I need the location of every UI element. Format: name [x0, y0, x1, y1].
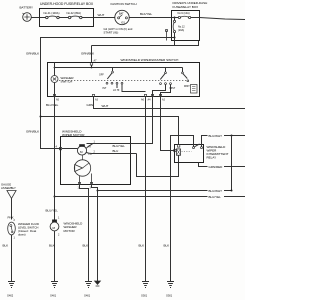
svg-text:BLU/WHT: BLU/WHT [209, 134, 223, 138]
BLU/WHT label right [209, 189, 223, 193]
svg-text:G402: G402 [7, 295, 14, 298]
BLU/YEL label right [209, 195, 222, 199]
GRN/RED label [209, 165, 224, 169]
svg-text:(20A): (20A) [178, 29, 184, 32]
svg-text:BLU/YEL: BLU/YEL [209, 195, 222, 199]
svg-text:GRN: GRN [87, 103, 94, 107]
BLK label level switch [3, 243, 9, 247]
node: junction at fuse 9 input [174, 17, 176, 19]
svg-text:2: 2 [58, 234, 60, 237]
ground G401 (wiper motor pair left) [85, 282, 92, 288]
wiper switch pole 3 (MIST) [182, 68, 189, 82]
svg-text:WIPER MOTOR: WIPER MOTOR [62, 133, 85, 137]
svg-text:MOTOR: MOTOR [64, 229, 76, 233]
ground G401 (washer motor) [51, 282, 58, 288]
svg-text:PNK: PNK [8, 215, 14, 219]
wire A6 to ground (BLK) [145, 97, 147, 282]
ground G402 (level switch) [8, 282, 15, 288]
IG1 label [121, 22, 126, 25]
svg-text:G401: G401 [50, 295, 57, 298]
svg-text:M: M [80, 150, 83, 154]
svg-text:BLU/WHT: BLU/WHT [209, 189, 223, 193]
BLU/YEL label mid [113, 144, 126, 148]
wire WHT to ignition switch [94, 17, 115, 19]
BLU/WHT wire to right bus [98, 190, 232, 192]
svg-text:GRN/BLK: GRN/BLK [81, 51, 94, 55]
wire GRN/BLK branch left (upper) [41, 38, 175, 149]
windshield wiper/washer switch box [48, 63, 200, 97]
washer fluid level switch label [18, 222, 39, 226]
under-hood box title [40, 2, 94, 6]
under-hood fuse/relay box [40, 9, 94, 27]
svg-text:G501: G501 [166, 295, 173, 298]
terminal squares on switch box bottom [53, 94, 161, 96]
svg-text:DRIVER'S UNDER-DASH: DRIVER'S UNDER-DASH [173, 1, 208, 5]
svg-text:WINDSHIELD WIPER/WASHER SWITCH: WINDSHIELD WIPER/WASHER SWITCH [121, 58, 179, 62]
fuse No.41 label [44, 11, 60, 15]
bottom terminal labels [56, 99, 60, 102]
svg-text:LO HI: LO HI [113, 89, 120, 92]
fuse No.12 (20A) vertical [173, 18, 175, 38]
washer switch [51, 63, 58, 97]
svg-text:GRN/BLK: GRN/BLK [26, 129, 39, 133]
INT label [103, 87, 107, 90]
cam park switch [74, 155, 90, 176]
svg-text:2: 2 [14, 219, 16, 222]
fuse No.12 label [178, 25, 185, 28]
svg-text:No.42 (80A): No.42 (80A) [67, 11, 82, 15]
cam ground wire left [80, 185, 89, 282]
inner feed wire [55, 65, 183, 67]
svg-text:BLK: BLK [3, 243, 9, 247]
cam contacts [80, 174, 92, 185]
battery label [20, 6, 34, 10]
BLK label A6 ground [139, 243, 145, 247]
wire between fuses [59, 17, 68, 19]
svg-text:A2: A2 [162, 99, 166, 102]
svg-text:MIST: MIST [184, 85, 190, 88]
GRN/BLK label upper [26, 51, 39, 55]
fuse No.9 (10A) [172, 16, 200, 18]
washer motor terminal labels [58, 216, 60, 219]
svg-text:A5: A5 [56, 99, 60, 102]
OFF label [99, 74, 104, 77]
gauge assembly label [1, 183, 11, 187]
svg-text:UNDER-HOOD FUSE/RELAY BOX: UNDER-HOOD FUSE/RELAY BOX [40, 2, 94, 6]
svg-text:INT: INT [103, 87, 107, 90]
svg-text:RELAY: RELAY [207, 155, 217, 159]
svg-text:GRN/RED: GRN/RED [209, 165, 224, 169]
svg-text:BLK: BLK [83, 243, 89, 247]
level switch terminal labels [14, 219, 16, 222]
svg-text:BATTERY: BATTERY [20, 6, 34, 10]
gauge continuation triangle [7, 191, 16, 199]
GRN/BLK label lower [26, 129, 39, 133]
svg-text:MIST: MIST [170, 87, 176, 90]
svg-text:BLU/YEL: BLU/YEL [46, 208, 59, 212]
svg-text:No.9 (10A): No.9 (10A) [178, 12, 190, 15]
washer motor [50, 197, 59, 282]
windshield wiper intermittent relay box [175, 145, 204, 163]
cam ground wire right [92, 185, 98, 282]
BLK label relay ground [164, 243, 170, 247]
svg-text:G401: G401 [84, 295, 91, 298]
svg-text:No.41 (100A): No.41 (100A) [44, 11, 60, 15]
fuse No.42 label [67, 11, 82, 15]
motor LO BLU wire to relay coil [137, 154, 179, 177]
svg-text:GRN/BLK: GRN/BLK [26, 51, 39, 55]
svg-text:SWITCH: SWITCH [61, 79, 73, 83]
ignition switch label [111, 2, 137, 6]
relay input terminal square [174, 149, 176, 151]
svg-text:IG1: IG1 [121, 22, 126, 25]
ground G501 (relay BLK) [167, 282, 174, 288]
wire PNK [11, 199, 13, 220]
BLU/WHT label top [209, 134, 223, 138]
relay top terminal square [177, 145, 179, 148]
wire to right edge (continuation) [200, 18, 246, 20]
node washer junction [54, 196, 56, 198]
svg-text:BLK/YEL: BLK/YEL [140, 12, 153, 16]
bottom wire color labels [46, 103, 59, 107]
terminal 4 label [56, 146, 58, 149]
aux small box in switch [191, 85, 198, 94]
BLU/YEL label above washer motor [46, 208, 59, 212]
svg-text:BAT: BAT [119, 13, 124, 16]
svg-text:BLU: BLU [113, 149, 119, 153]
dashed mechanical link [59, 80, 186, 82]
svg-text:A4: A4 [148, 99, 152, 102]
svg-text:OFF: OFF [99, 74, 104, 77]
relay dashed link [182, 151, 192, 153]
svg-text:1: 1 [58, 216, 60, 219]
svg-text:A3: A3 [95, 99, 99, 102]
terminal square 4 [59, 147, 61, 149]
svg-text:WHT: WHT [102, 104, 109, 108]
svg-text:FUSE/RELAY BOX: FUSE/RELAY BOX [173, 5, 199, 9]
HI label [89, 145, 92, 148]
GRN wire to right edge [94, 97, 246, 109]
BLU/YEL bus to right edge [55, 196, 246, 198]
svg-text:2: 2 [94, 150, 96, 153]
right bus vertical [231, 136, 233, 191]
cam terminal labels [78, 186, 80, 189]
svg-text:BLU/YEL: BLU/YEL [46, 103, 59, 107]
M label [80, 150, 83, 154]
svg-text:START (III)): START (III)) [104, 31, 119, 35]
PNK label [8, 215, 14, 219]
switch box title [121, 58, 179, 62]
bus GRN/BLK to relay [41, 117, 179, 145]
motor HI wire [86, 144, 152, 149]
LO label [89, 153, 92, 156]
svg-text:ASSEMBLY: ASSEMBLY [1, 186, 16, 190]
relay contacts [193, 144, 203, 149]
BLK/YEL label [140, 12, 153, 16]
washer wire down [54, 97, 56, 197]
LO HI labels [113, 89, 120, 92]
svg-text:IGNITION SWITCH: IGNITION SWITCH [111, 2, 137, 6]
wiper motor title [62, 129, 82, 133]
wire A2 to relay [161, 97, 175, 151]
hot-in-on note [104, 27, 133, 31]
relay contact A wire over box to ground [171, 136, 194, 282]
node at right bus top [231, 135, 233, 137]
terminal 2 label [94, 150, 96, 153]
BAT label [119, 13, 124, 16]
driver's under-dash fuse/relay box [172, 11, 200, 41]
washer switch label [61, 76, 75, 80]
BLK label washer motor [49, 243, 55, 247]
BLK label cam ground [83, 243, 89, 247]
relay contact B wire BLU/WHT to right edge [202, 136, 246, 147]
svg-text:BLK: BLK [139, 243, 145, 247]
wire A4 to motor HI (BLU/YEL) [87, 97, 153, 144]
A7 terminal label [94, 60, 98, 63]
ground (wiper motor pair right, triangle) [95, 281, 101, 286]
svg-text:BLU/YEL: BLU/YEL [113, 144, 126, 148]
svg-text:1: 1 [14, 237, 16, 240]
node BLU/WHT junction [97, 190, 99, 192]
svg-text:G501: G501 [141, 295, 148, 298]
relay GRN/RED wire [199, 163, 246, 167]
wiper switch pole 2 [160, 68, 172, 85]
washer motor label [64, 222, 84, 226]
wire branch to switch A7 [92, 38, 199, 46]
svg-text:M: M [53, 226, 56, 230]
svg-text:WHT: WHT [98, 13, 105, 17]
GRN/BLK label at A7 [81, 51, 94, 55]
ground G501 (switch BLK) [142, 282, 149, 288]
stub wire in box [166, 30, 168, 41]
svg-text:BLK: BLK [49, 243, 55, 247]
svg-text:BLK: BLK [164, 243, 170, 247]
battery [23, 13, 32, 22]
fuse No.9 label [178, 12, 190, 15]
wire battery to under-hood box [31, 17, 39, 19]
terminal square A7 [90, 63, 92, 66]
wiper switch pole 1 [106, 68, 123, 85]
fuse No.41 (100A) [40, 16, 60, 19]
motor LO wire [86, 153, 136, 154]
relay label [207, 145, 227, 149]
svg-text:A6: A6 [141, 99, 145, 102]
WHT label [98, 13, 105, 17]
ignition switch [115, 10, 129, 24]
MIST labels [170, 87, 176, 90]
fuse No.42 (80A) [68, 16, 93, 19]
washer motor M label [53, 226, 56, 230]
wiper motor M [62, 144, 87, 155]
svg-text:down): down) [18, 233, 26, 237]
pole2 contact drops [153, 85, 171, 97]
BLU label [113, 149, 119, 153]
node: junction below fuse 12 [174, 37, 176, 39]
washer fluid level switch [8, 222, 16, 281]
under-dash box title [173, 1, 208, 5]
terminal 1 label [94, 141, 96, 144]
relay coil [177, 149, 181, 163]
wire BLK/YEL to under-dash box [129, 17, 171, 19]
pole1 contact drop [117, 84, 146, 91]
svg-text:No.12: No.12 [178, 25, 185, 28]
windshield wiper motor box [61, 137, 131, 185]
